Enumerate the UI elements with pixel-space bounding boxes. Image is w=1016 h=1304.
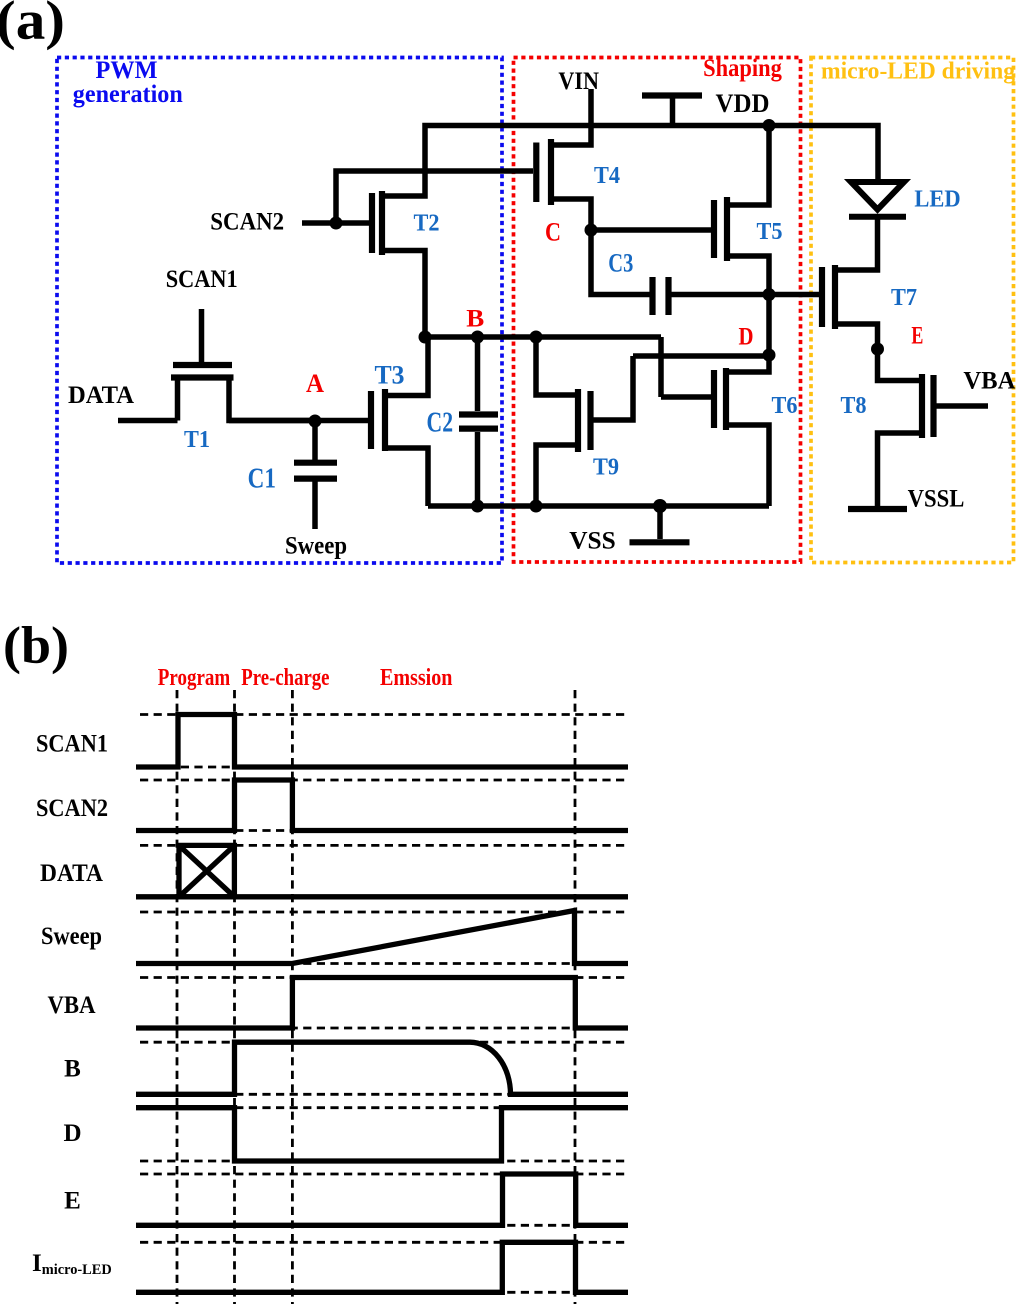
- svg-text:(a): (a): [0, 0, 65, 51]
- svg-text:VSS: VSS: [569, 528, 616, 555]
- svg-text:C: C: [545, 218, 561, 247]
- svg-text:Pre-charge: Pre-charge: [241, 665, 329, 691]
- svg-text:LED: LED: [914, 186, 960, 213]
- svg-text:T5: T5: [757, 218, 783, 245]
- svg-text:D: D: [739, 324, 754, 351]
- svg-text:B: B: [64, 1056, 81, 1083]
- svg-text:SCAN1: SCAN1: [36, 731, 108, 758]
- svg-text:PWM: PWM: [96, 57, 158, 84]
- svg-text:Sweep: Sweep: [285, 533, 347, 560]
- svg-text:SCAN2: SCAN2: [36, 795, 108, 822]
- svg-text:D: D: [63, 1120, 81, 1147]
- svg-text:T7: T7: [891, 284, 917, 311]
- svg-text:SCAN1: SCAN1: [166, 266, 238, 293]
- svg-text:DATA: DATA: [68, 382, 134, 409]
- svg-text:A: A: [306, 369, 324, 398]
- svg-text:C1: C1: [248, 464, 276, 495]
- svg-text:E: E: [64, 1188, 81, 1215]
- svg-text:B: B: [466, 306, 484, 333]
- svg-text:VIN: VIN: [558, 68, 599, 95]
- svg-text:T2: T2: [414, 210, 440, 237]
- svg-text:E: E: [911, 323, 923, 350]
- svg-text:VBA: VBA: [48, 992, 96, 1019]
- svg-text:T1: T1: [184, 426, 210, 453]
- svg-text:C2: C2: [427, 408, 454, 439]
- svg-text:VDD: VDD: [716, 89, 770, 118]
- svg-text:T4: T4: [594, 162, 620, 189]
- svg-text:Sweep: Sweep: [41, 923, 102, 950]
- svg-text:micro-LED driving: micro-LED driving: [821, 59, 1015, 85]
- svg-text:SCAN2: SCAN2: [210, 209, 284, 236]
- svg-text:T6: T6: [772, 392, 798, 419]
- svg-text:Program: Program: [158, 665, 230, 691]
- svg-text:generation: generation: [73, 81, 183, 108]
- svg-text:T8: T8: [841, 392, 867, 419]
- svg-text:VSSL: VSSL: [908, 486, 965, 513]
- svg-text:Emssion: Emssion: [380, 665, 453, 691]
- svg-text:C3: C3: [608, 248, 633, 278]
- svg-text:DATA: DATA: [40, 860, 103, 887]
- svg-text:(b): (b): [3, 617, 69, 675]
- svg-text:T3: T3: [375, 361, 405, 390]
- svg-text:VBA: VBA: [963, 368, 1015, 395]
- svg-text:T9: T9: [593, 454, 619, 481]
- svg-text:Shaping: Shaping: [703, 55, 782, 82]
